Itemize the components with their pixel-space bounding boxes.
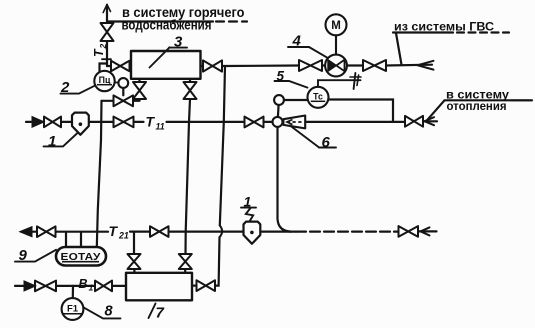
- svg-text:В: В: [79, 277, 88, 291]
- svg-text:Т: Т: [146, 113, 156, 129]
- svg-text:Т: Т: [109, 223, 119, 239]
- svg-text:9: 9: [19, 247, 28, 264]
- svg-text:Тс: Тс: [313, 92, 323, 102]
- svg-text:водоснабжения: водоснабжения: [122, 18, 212, 33]
- svg-text:2: 2: [60, 79, 70, 96]
- svg-text:из системы ГВС: из системы ГВС: [394, 20, 494, 34]
- svg-text:М: М: [331, 20, 341, 32]
- svg-text:3: 3: [174, 33, 183, 50]
- svg-text:6: 6: [322, 134, 331, 151]
- svg-text:4: 4: [292, 32, 302, 49]
- svg-text:Пц: Пц: [99, 75, 111, 85]
- svg-text:8: 8: [105, 304, 114, 320]
- svg-text:отопления: отопления: [447, 99, 507, 113]
- svg-text:7: 7: [156, 305, 165, 322]
- svg-text:1: 1: [48, 133, 56, 150]
- svg-text:11: 11: [156, 121, 165, 131]
- svg-text:21: 21: [118, 231, 129, 241]
- svg-text:1: 1: [89, 283, 94, 293]
- svg-text:F1: F1: [67, 304, 79, 315]
- svg-text:2: 2: [98, 44, 108, 50]
- svg-text:5: 5: [277, 68, 285, 83]
- svg-text:1: 1: [244, 194, 252, 210]
